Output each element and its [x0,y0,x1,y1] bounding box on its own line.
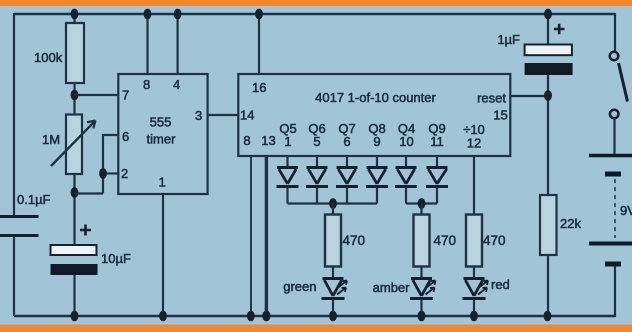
svg-text:4017 1-of-10 counter: 4017 1-of-10 counter [315,90,436,105]
wire Q4 stub [405,156,407,167]
wire left rail lower [13,237,15,316]
node green bus junction [329,198,337,209]
resistor 22k [540,195,581,255]
wire pin 13 enable [265,156,268,316]
resistor 470 green [325,215,365,267]
node ground 22k [544,311,552,322]
node ground green LED [329,311,337,322]
svg-text:7: 7 [122,88,129,103]
capacitor 1uF electrolytic [497,14,572,75]
svg-text:red: red [491,277,510,292]
node ground pin8 [247,311,255,322]
svg-text:reset: reset [477,91,506,106]
wire amber OR bus [406,188,437,204]
IC U2 4017 counter [238,74,510,156]
battery 9V [589,156,632,265]
diode D2 [306,168,328,187]
wire pin 15 reset [510,95,548,97]
wire top supply rail [14,13,615,16]
svg-text:15: 15 [493,108,507,123]
wire 1uF to reset node [547,75,549,195]
svg-text:3: 3 [195,108,202,123]
svg-text:9V: 9V [620,203,632,218]
wire Q5 stub [286,156,288,167]
wire green OR bus [288,188,378,204]
diode D3 [336,168,358,187]
svg-text:green: green [283,279,316,294]
wire pin 4 supply [177,14,179,74]
svg-text:5: 5 [313,134,320,149]
diode D6 [426,168,448,187]
svg-text:10µF: 10µF [101,251,131,266]
node top rail 1uF [544,9,552,20]
wire pin 12 to red resistor [473,156,475,215]
svg-text:12: 12 [467,136,481,151]
resistor 470 amber [414,215,457,267]
wire pin 1 ground [162,194,164,316]
node ground amber LED [418,311,426,322]
wire pin 6 [103,135,118,194]
svg-text:timer: timer [147,132,177,147]
wire red resistor to LED [473,267,475,279]
wire Q6 stub [316,156,318,167]
svg-text:8: 8 [143,77,150,92]
svg-text:470: 470 [434,233,457,248]
wire 1M bottom to 10uF [73,174,75,245]
node ground red LED [470,311,478,322]
svg-text:0.1µF: 0.1µF [17,192,51,207]
resistor 470 red [466,215,506,267]
svg-text:amber: amber [373,280,411,295]
svg-text:1M: 1M [42,132,60,147]
wire Q8 stub [376,156,378,167]
svg-text:2: 2 [121,166,128,181]
svg-text:11: 11 [430,134,444,149]
node top rail 100k [71,9,79,20]
svg-text:1: 1 [284,134,291,149]
node junction below 1M [71,187,79,198]
diode D5 [395,168,417,187]
wire pin 8 4017 ground [250,156,252,316]
diode D1 [277,168,299,187]
LED green [283,279,347,299]
wire green LED to ground [332,300,334,316]
LED red [463,277,510,299]
wire pin 3 output [208,114,239,116]
wire green resistor to LED [332,267,334,280]
svg-text:470: 470 [483,233,506,248]
node top rail pin16 [255,9,263,20]
wire pin 7 [75,94,119,96]
wire green bus to resistor [332,204,334,215]
switch S1 [610,52,628,119]
svg-text:14: 14 [240,108,254,123]
svg-text:4: 4 [173,77,180,92]
wire red LED to ground [473,300,475,316]
svg-text:1µF: 1µF [497,32,520,47]
svg-text:13: 13 [261,133,275,148]
svg-text:470: 470 [343,233,366,248]
wire switch to battery [613,119,615,155]
wire amber bus to resistor [420,204,422,215]
svg-text:9: 9 [373,134,380,149]
wire pin 8 supply [146,14,148,74]
wire pin 16 supply [258,14,260,74]
svg-text:100k: 100k [34,50,63,65]
wire left rail upper [13,13,15,215]
svg-text:555: 555 [150,115,172,130]
wire amber LED to ground [420,300,422,316]
capacitor 10uF electrolytic [51,225,131,276]
svg-text:10: 10 [399,134,413,149]
wire 22k to ground [547,255,549,316]
wire node to pins 2-6 net [75,192,104,194]
svg-text:6: 6 [343,134,350,149]
node top rail pin4 [174,9,182,20]
svg-text:1: 1 [159,175,166,190]
node ground pin1 [159,311,167,322]
node reset junction [544,90,552,101]
node top rail pin8 [144,9,152,20]
wire Q7 stub [346,156,348,167]
wire 100k to 1M [73,83,75,115]
diode D4 [366,168,388,187]
wire right rail to switch [614,13,616,52]
svg-text:16: 16 [252,80,266,95]
wire pin 2 [103,172,118,174]
wire amber resistor to LED [420,267,422,279]
node ground 10uF [71,311,79,322]
resistor 100k [34,14,84,83]
svg-text:6: 6 [122,129,129,144]
wire bottom ground rail [14,315,615,318]
node amber bus junction [418,198,426,209]
potentiometer 1M [42,115,96,175]
LED amber [373,279,436,299]
wire 10uF to ground [73,275,75,316]
op-amp U1 555 timer [118,74,207,194]
wire Q9 stub [436,156,438,167]
node junction pins 2-6 [99,168,107,179]
wire battery to ground rail [612,266,615,317]
node ground pin13 [262,311,270,322]
capacitor 0.1uF [0,192,51,236]
svg-text:8: 8 [243,133,250,148]
svg-text:22k: 22k [560,216,581,231]
node junction pin7 tap [71,90,79,101]
